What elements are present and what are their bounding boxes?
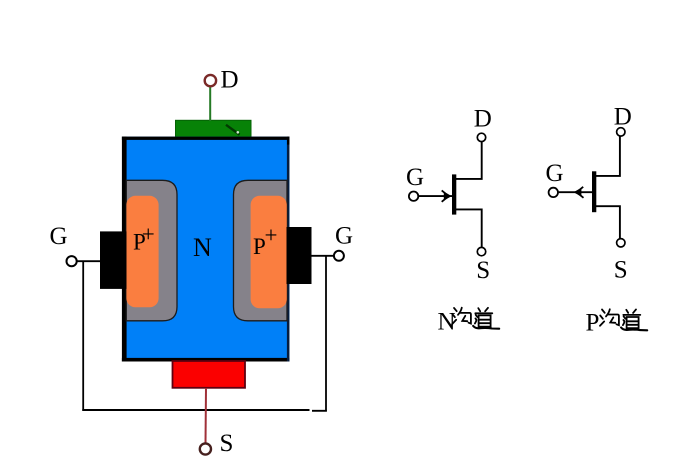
svg-text:P: P (586, 310, 600, 337)
svg-text:G: G (406, 164, 424, 191)
right gray well sheath (234, 180, 288, 320)
svg-text:S: S (476, 257, 490, 284)
caption hanzi 沟 (P-channel) (600, 309, 619, 326)
svg-text:+: + (142, 222, 155, 247)
P-symbol gate lead wire (559, 191, 593, 193)
source contact bar (red) (173, 361, 246, 388)
svg-text:D: D (221, 67, 239, 94)
wire: left gate lead (76, 260, 102, 262)
svg-text:N: N (193, 233, 212, 262)
caption hanzi 沟 (N-channel) (452, 308, 471, 325)
N-symbol source stub wire (456, 209, 482, 247)
svg-text:G: G (50, 223, 68, 250)
wire: right gate vertical drop (325, 256, 327, 412)
N substrate region (blue, black border) (122, 137, 290, 362)
svg-text:G: G (335, 223, 353, 250)
wire: right gate lead (310, 255, 334, 257)
terminal G circle (right) (334, 251, 344, 261)
svg-text:+: + (265, 223, 278, 248)
N-symbol G terminal circle (409, 192, 418, 201)
N-symbol gate bar (452, 174, 456, 214)
P-symbol drain stub wire (596, 136, 620, 176)
svg-text:D: D (474, 105, 492, 132)
terminal S circle (200, 443, 211, 454)
N-symbol gate lead wire (419, 195, 453, 197)
wire: source lead (red) (205, 388, 208, 444)
svg-text:S: S (220, 430, 234, 457)
right P+ region (orange) (251, 196, 287, 308)
right gate contact (black) (287, 227, 312, 284)
svg-text:S: S (614, 257, 628, 284)
caption hanzi 道 (P-channel) (621, 309, 647, 330)
P-symbol gate bar (592, 171, 596, 212)
terminal D circle (205, 75, 216, 86)
drain contact bar (green) (176, 120, 252, 138)
terminal G circle (left) (67, 256, 77, 266)
left gray well sheath (126, 180, 177, 320)
svg-text:G: G (546, 160, 564, 187)
svg-text:D: D (614, 104, 632, 131)
scratch highlight dot (237, 131, 240, 134)
wire: bottom interconnect (right span) (312, 410, 327, 412)
wire: bottom interconnect (left span) (82, 409, 309, 411)
P-symbol D terminal circle (617, 128, 625, 136)
left P+ region (orange) (126, 196, 158, 307)
P-symbol arrowhead (points left away from gate) (575, 187, 583, 198)
N-symbol S terminal circle (477, 247, 485, 255)
wire: drain lead (green) (209, 87, 211, 122)
left gate contact (black) (100, 231, 127, 289)
P-symbol source stub wire (596, 206, 620, 238)
caption hanzi 道 (N-channel) (473, 308, 499, 329)
svg-text:N: N (438, 309, 456, 336)
P-symbol S terminal circle (617, 239, 625, 247)
N-symbol drain stub wire (456, 142, 482, 179)
P-symbol G terminal circle (549, 188, 558, 197)
N-symbol D terminal circle (477, 133, 485, 141)
wire: left gate vertical drop (82, 261, 84, 411)
N-symbol arrowhead (points right into gate) (442, 190, 450, 201)
scratch mark on drain contact (226, 125, 240, 135)
